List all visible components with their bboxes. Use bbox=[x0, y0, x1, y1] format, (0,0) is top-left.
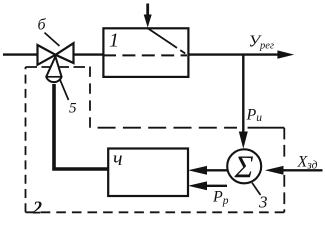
diagonal damper line in block 1 (solid part) bbox=[148, 28, 172, 44]
svg-text:Урег: Урег bbox=[249, 32, 274, 52]
dashed boundary 2 (right edge of actuator pocket) bbox=[89, 67, 91, 128]
dashed boundary 2 (right edge) bbox=[283, 128, 285, 157]
svg-text:Рр: Рр bbox=[212, 189, 229, 208]
block 4 bbox=[108, 149, 188, 197]
dashed boundary 2 (inner horizontal, last dash to corner) bbox=[248, 127, 285, 129]
svg-text:1: 1 bbox=[109, 30, 119, 52]
arrow into block 4 (upper) bbox=[188, 166, 207, 175]
wire thick link: actuator to block 4 bbox=[54, 84, 108, 169]
svg-text:5: 5 bbox=[69, 101, 77, 117]
svg-text:Σ: Σ bbox=[234, 149, 254, 185]
leader line to б bbox=[45, 33, 60, 46]
wire block 1 to output arrow bbox=[188, 53, 280, 55]
arrow into block 4 (lower) bbox=[188, 181, 207, 190]
dashed boundary 2 (right edge, below Хзд wire) bbox=[283, 175, 285, 204]
actuator 5 (membrane drum) bbox=[46, 57, 61, 83]
block 1 bbox=[103, 28, 188, 77]
dashed boundary 2 (inner horizontal edge) bbox=[98, 127, 237, 129]
wire Рр into block 4 bbox=[205, 185, 227, 187]
output arrow Урег bbox=[277, 50, 294, 58]
summator 3 (circle with sigma) bbox=[227, 149, 261, 185]
wire main line left segment bbox=[3, 53, 38, 55]
wire feedback Ри vertical bbox=[242, 55, 244, 133]
svg-text:б: б bbox=[38, 17, 47, 34]
wire summator to block 4 bbox=[205, 169, 227, 171]
svg-text:2: 2 bbox=[32, 198, 42, 218]
leader line to 3 bbox=[252, 183, 261, 195]
wire valve to block 1 bbox=[74, 53, 104, 55]
dashed boundary 2 (top edge) bbox=[26, 66, 91, 68]
svg-text:Ри: Ри bbox=[246, 107, 263, 125]
dashed boundary 2 (bottom-right corner piece) bbox=[283, 209, 285, 212]
wire dashed inside block 1 bbox=[103, 54, 187, 56]
valve б (bowtie) bbox=[38, 43, 74, 65]
svg-text:ч: ч bbox=[113, 148, 123, 170]
svg-text:Хзд: Хзд bbox=[297, 154, 318, 172]
diagonal damper line in block 1 (dashed part) bbox=[172, 45, 188, 56]
input arrow into block 1 from top bbox=[144, 4, 152, 28]
leader line to 5 bbox=[60, 79, 69, 101]
dashed boundary 2 (left edge) bbox=[25, 67, 27, 212]
wire Хзд input bbox=[280, 169, 323, 171]
arrow Хзд into summator bbox=[265, 166, 284, 175]
dashed boundary 2 (bottom edge) bbox=[26, 211, 285, 213]
arrow into summator from top bbox=[239, 132, 248, 149]
svg-text:3: 3 bbox=[258, 193, 268, 212]
